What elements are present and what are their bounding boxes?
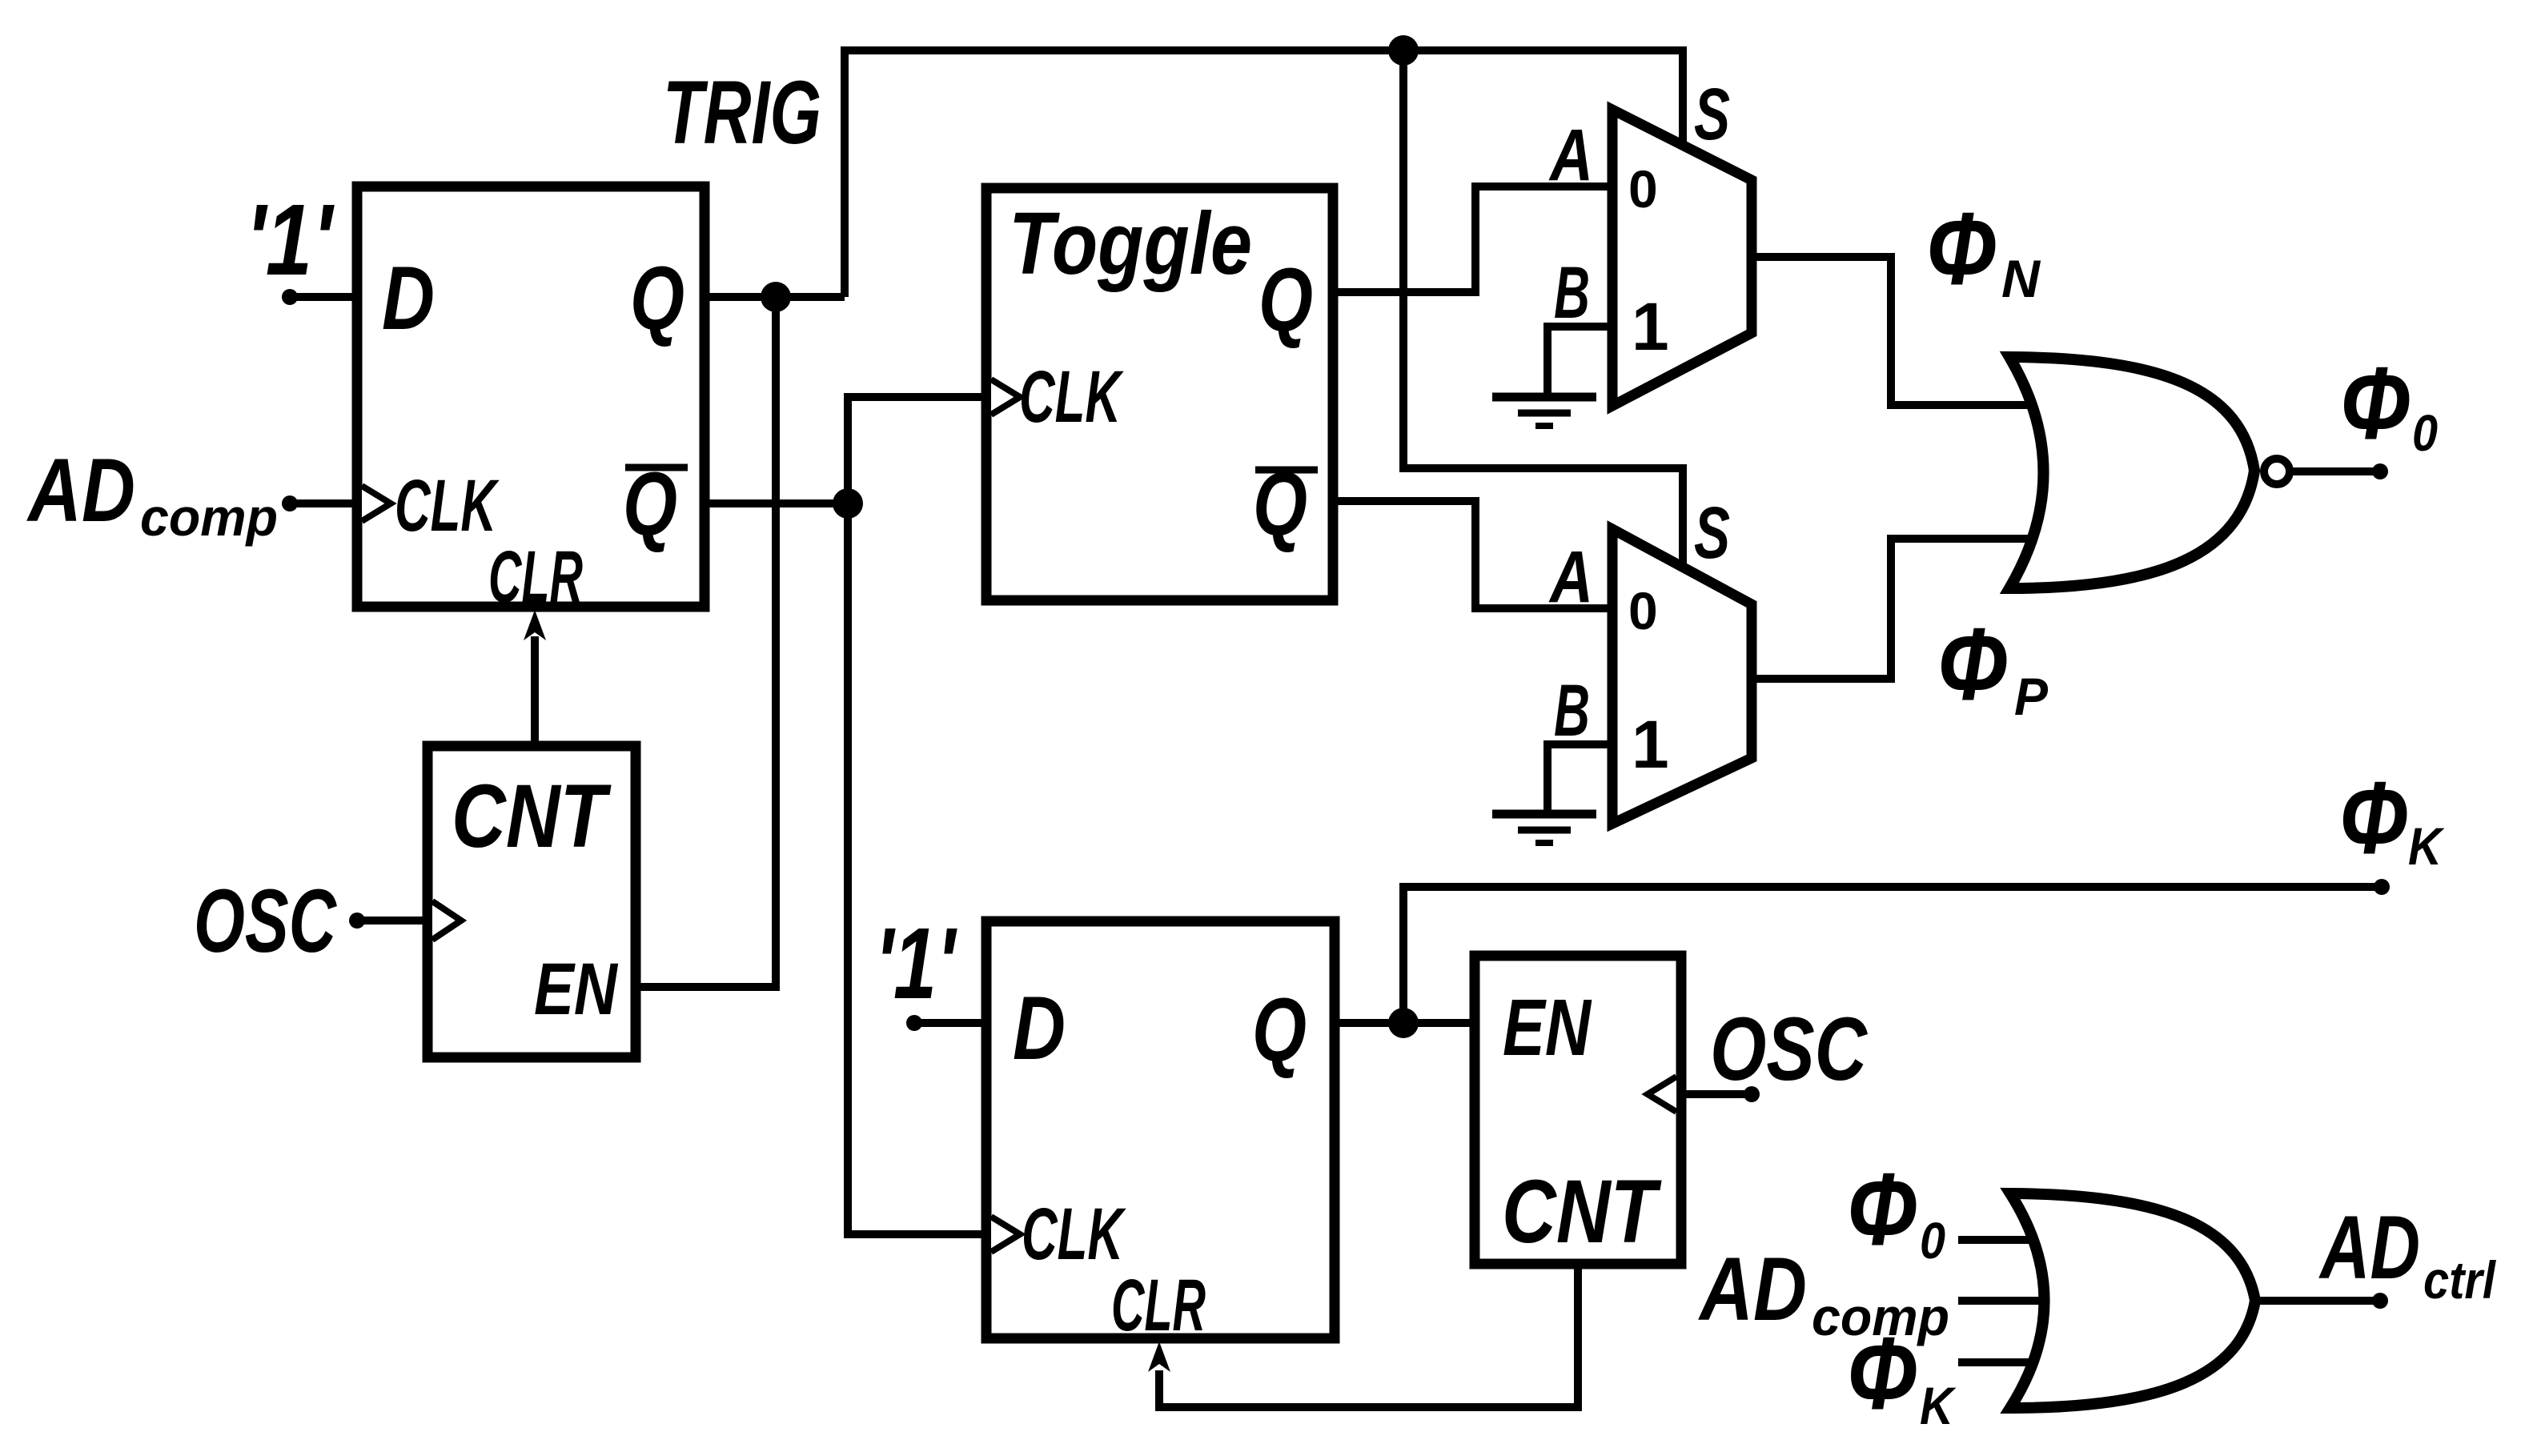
svg-text:'1': '1' <box>875 907 957 1020</box>
wire DFF1 Qbar output <box>705 499 848 507</box>
node Phi0 terminal <box>2372 463 2388 479</box>
svg-text:Q: Q <box>630 248 684 348</box>
flip-flop DFF1 box <box>357 187 705 607</box>
svg-text:B: B <box>1554 670 1590 752</box>
NOR output bubble <box>2264 459 2290 484</box>
svg-text:K: K <box>2408 816 2445 876</box>
counter CNT1 box <box>428 746 636 1057</box>
node OSC terminal right <box>1744 1086 1760 1102</box>
svg-text:TRIG: TRIG <box>663 62 821 162</box>
node ADctrl terminal <box>2372 1293 2388 1309</box>
svg-text:S: S <box>1694 74 1730 155</box>
svg-text:CLK: CLK <box>1019 356 1124 438</box>
svg-text:'1': '1' <box>246 183 335 296</box>
svg-text:0: 0 <box>1628 581 1658 640</box>
svg-text:Φ: Φ <box>1937 608 2008 722</box>
wire CNT1 CLR arrow to DFF1 <box>531 636 539 746</box>
svg-text:CNT: CNT <box>1502 1161 1662 1261</box>
svg-text:AD: AD <box>1698 1239 1807 1339</box>
wire TRIG top rail with drop to MUX1 S <box>845 50 1683 297</box>
Toggle CLK edge triangle <box>991 379 1020 415</box>
svg-text:Toggle: Toggle <box>1009 195 1252 293</box>
counter CNT2 box <box>1475 956 1681 1264</box>
node '1' terminal DFF2 <box>906 1015 922 1031</box>
wire MUX1 B to ground <box>1548 327 1612 397</box>
DFF2 CLK edge triangle <box>991 1217 1020 1252</box>
CNT2 CLK edge triangle (left pointing) <box>1648 1077 1676 1112</box>
ground symbol MUX1 B <box>1492 397 1596 426</box>
gate OR (3-input) <box>2010 1193 2255 1408</box>
svg-text:CNT: CNT <box>452 766 612 866</box>
node DFF1 Q junction <box>761 282 791 312</box>
wire NOR output Phi0 <box>2291 467 2380 475</box>
svg-text:S: S <box>1694 492 1730 574</box>
wire Toggle Qbar to MUX2 A <box>1333 501 1612 608</box>
svg-text:N: N <box>2001 249 2041 308</box>
wire OR gate input ADcomp <box>1958 1297 2053 1305</box>
svg-text:EN: EN <box>534 949 619 1030</box>
arrowhead CLR DFF1 <box>524 610 546 640</box>
svg-text:OSC: OSC <box>1710 999 1869 1099</box>
svg-text:D: D <box>382 248 435 348</box>
wire DFF2 Q to CNT2 EN <box>1335 1019 1475 1027</box>
wire CNT2 CLR feedback to DFF2 <box>1159 1264 1578 1407</box>
svg-text:Φ: Φ <box>1847 1153 1917 1267</box>
svg-text:B: B <box>1554 252 1590 334</box>
svg-text:CLK: CLK <box>1022 1193 1126 1275</box>
svg-text:A: A <box>1548 536 1593 618</box>
wire Qbar branch to Toggle CLK <box>848 397 986 503</box>
node TRIG junction <box>1388 35 1419 66</box>
DFF1 CLK edge triangle <box>362 486 391 521</box>
svg-text:0: 0 <box>2412 404 2438 462</box>
svg-text:OSC: OSC <box>194 871 338 971</box>
flip-flop Toggle box <box>986 188 1333 600</box>
wire OR gate input Phi0 <box>1958 1236 2033 1244</box>
node ADcomp terminal <box>282 495 298 511</box>
svg-text:CLR: CLR <box>1111 1265 1206 1346</box>
wire PhiK rail <box>1403 887 2382 1023</box>
wire DFF2 D input <box>914 1019 986 1027</box>
svg-text:D: D <box>1013 978 1066 1078</box>
ground symbol MUX2 B <box>1492 814 1596 843</box>
node OSC terminal left <box>349 913 365 929</box>
svg-text:P: P <box>2014 667 2049 726</box>
node PhiK terminal <box>2374 879 2390 895</box>
svg-text:Φ: Φ <box>1847 1317 1917 1431</box>
wire MUX1 out PhiN to NOR in1 <box>1752 257 2033 405</box>
svg-text:1: 1 <box>1632 289 1669 364</box>
mux MUX1 trapezoid <box>1612 110 1752 406</box>
wire DFF1 Q output <box>705 293 845 301</box>
wire Q branch down to CNT1 EN <box>636 297 776 987</box>
svg-text:Q: Q <box>1258 250 1313 350</box>
svg-text:comp: comp <box>140 487 278 547</box>
wire MUX2 out PhiP to NOR in2 <box>1752 539 2033 679</box>
wire CNT1 OSC input <box>357 917 428 925</box>
wire Qbar branch to DFF2 CLK <box>848 503 986 1234</box>
svg-text:Φ: Φ <box>2340 347 2411 461</box>
node DFF2 Q junction <box>1388 1008 1419 1038</box>
wire DFF1 D input <box>290 293 357 301</box>
wire DFF1 CLK input <box>290 499 357 507</box>
svg-text:EN: EN <box>1503 983 1592 1073</box>
arrowhead CLR DFF2 <box>1148 1342 1170 1372</box>
gate NOR (2-input) <box>2009 357 2254 588</box>
svg-text:Φ: Φ <box>1926 192 1997 307</box>
svg-text:0: 0 <box>1628 159 1658 219</box>
wire MUX2 B to ground <box>1548 744 1612 814</box>
svg-text:AD: AD <box>26 440 135 540</box>
svg-text:A: A <box>1548 114 1593 196</box>
svg-text:1: 1 <box>1632 707 1669 782</box>
wire Toggle Q to MUX1 A <box>1333 187 1612 292</box>
CNT1 CLK edge triangle <box>432 901 461 940</box>
svg-text:K: K <box>1920 1376 1957 1435</box>
svg-text:ctrl: ctrl <box>2423 1250 2496 1310</box>
wire CNT2 OSC input <box>1681 1090 1752 1098</box>
wire OR gate output ADctrl <box>2255 1297 2380 1305</box>
svg-text:Φ: Φ <box>2339 761 2408 876</box>
wire TRIG branch to MUX2 S <box>1403 50 1683 572</box>
flip-flop DFF2 box <box>986 921 1335 1338</box>
svg-text:0: 0 <box>1920 1212 1945 1269</box>
svg-text:CLR: CLR <box>488 536 583 618</box>
svg-text:CLK: CLK <box>395 465 500 547</box>
node '1' terminal DFF1 <box>282 289 298 305</box>
mux MUX2 trapezoid <box>1612 529 1752 824</box>
svg-text:Q: Q <box>1252 980 1307 1080</box>
svg-text:AD: AD <box>2318 1197 2420 1298</box>
node DFF1 Qbar junction <box>833 488 863 519</box>
wire OR gate input PhiK <box>1958 1358 2033 1366</box>
